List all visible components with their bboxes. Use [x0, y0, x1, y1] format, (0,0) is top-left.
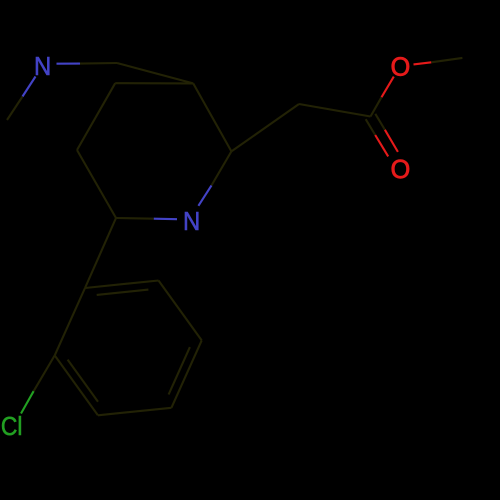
node N2 label — [183, 207, 200, 236]
wire N1-methyl (carbon half) — [7, 97, 23, 121]
wire ester O to methyl (red half) — [414, 62, 432, 64]
node N1 label — [34, 52, 51, 81]
wire piperidine lower-left edge — [77, 150, 116, 218]
wire N2 to C6 (blue half) — [198, 185, 211, 205]
wire C2' to Cl (green half) — [21, 391, 34, 413]
wire benzene edge C6' to ipso — [85, 281, 159, 289]
wire carbonyl to ester O (carbon half) — [371, 97, 382, 116]
wire benzylic C2 to phenyl ipso — [85, 218, 116, 288]
wire benzene edge C5' to C6' — [159, 281, 202, 341]
svg-text:O: O — [391, 156, 411, 184]
wire piperidine upper-left edge — [77, 83, 115, 150]
wire N2 to C6 (carbon half) — [212, 151, 232, 185]
wire CH2 to ring C5 — [117, 63, 193, 83]
svg-text:O: O — [391, 53, 411, 81]
wire chain CH2 — [231, 104, 299, 151]
wire ring C6 to ring C5 — [193, 83, 231, 151]
wire N1-methyl (blue half) — [23, 77, 36, 97]
wire C2 to N2 (blue half) — [154, 218, 177, 221]
svg-text:N: N — [183, 207, 200, 236]
wire C2 to N2 (carbon half) — [116, 217, 154, 220]
node O2 carbonyl oxygen label — [391, 156, 411, 184]
wire benzene inner double C2'-C3' — [68, 360, 98, 402]
wire N1 to CH2 (carbon half) — [80, 62, 117, 65]
wire benzene edge C4' to C5' — [171, 340, 201, 407]
node O1 ester oxygen label — [391, 53, 411, 81]
wire benzene inner double C4'-C5' — [169, 347, 190, 394]
wire chain CH2 to carbonyl — [299, 104, 371, 117]
wire ester O to methyl (carbon half) — [431, 58, 462, 62]
node Cl label — [1, 413, 23, 442]
svg-text:Cl: Cl — [1, 413, 23, 442]
wire carbonyl to ester O (red half) — [382, 77, 394, 98]
wire C=O double bond line A red half — [375, 135, 388, 156]
wire benzene edge C2' to C3' — [55, 355, 98, 415]
wire C2' to Cl (carbon half) — [34, 355, 55, 391]
svg-text:N: N — [34, 52, 51, 81]
wire benzene edge ipso to C2' — [55, 288, 85, 355]
wire benzene inner double ipso-C6' — [97, 290, 149, 295]
wire C=O double bond line B red half — [385, 130, 398, 152]
wire N1 to CH2 (blue half) — [57, 63, 81, 65]
wire C=O double bond line B carbon half — [375, 114, 385, 130]
wire benzene edge C3' to C4' — [98, 408, 171, 416]
wire C=O double bond line A carbon half — [366, 119, 376, 135]
wire piperidine top edge — [115, 82, 193, 84]
